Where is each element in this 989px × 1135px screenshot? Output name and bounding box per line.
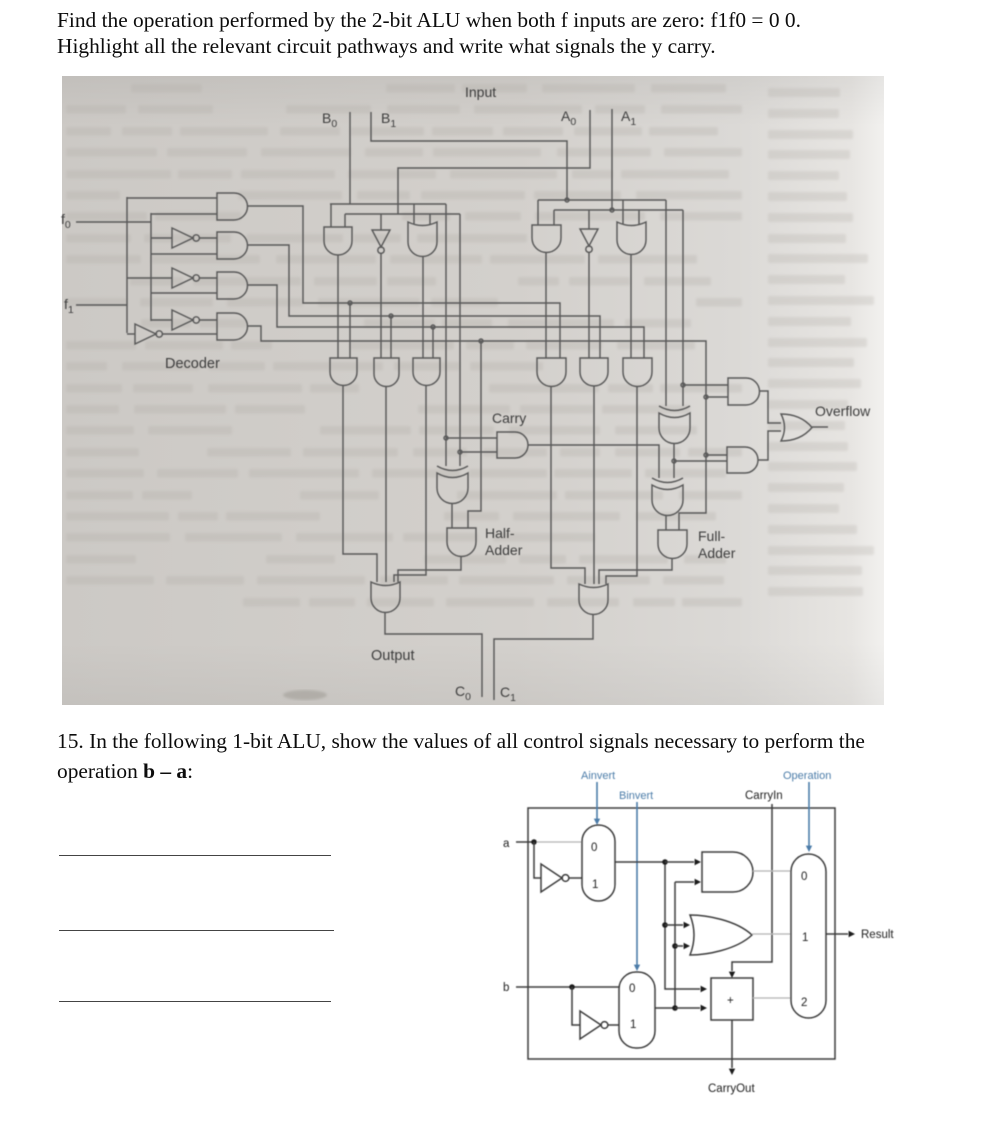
wire decoder rail B [150, 213, 152, 321]
wire ovf AND1 in a [683, 384, 728, 386]
inverter NOT-L bit0 [372, 230, 390, 247]
wire AND out [753, 870, 791, 872]
svg-text:Full-: Full- [698, 528, 726, 544]
wire a input [516, 841, 534, 843]
wire AND3R out to OR2 [606, 386, 637, 584]
wire mux A out [615, 861, 665, 863]
svg-text:2: 2 [801, 997, 807, 1009]
wire f0 [76, 221, 151, 223]
svg-text:1: 1 [630, 1019, 636, 1031]
wire AND2 input b [151, 253, 217, 255]
mux result 3-to-1 [791, 854, 826, 1018]
wire AND2R out to OR2 [593, 386, 595, 584]
wire b to inverter [572, 987, 580, 1025]
or-gate output OR2 bit1 [579, 584, 608, 615]
and-gate half-adder enable AND [447, 528, 476, 557]
junction line3 [479, 339, 483, 343]
xor-gate full-adder XOR1 [659, 406, 690, 411]
wire b-not to mux1 [608, 1024, 619, 1026]
wire AND1R out to OR2 [551, 386, 585, 584]
and-gate select AND2R [580, 358, 608, 386]
junction ovf d [672, 459, 676, 463]
wire Binvert arrow [636, 802, 638, 965]
and-gate ALU AND [702, 852, 753, 892]
svg-text:1: 1 [592, 879, 598, 891]
wire Operation arrow [808, 782, 810, 846]
wire NOT-R in [588, 210, 590, 229]
and-gate select AND1R [537, 358, 566, 387]
wire AND-R in a [537, 200, 539, 225]
wire a to OR [665, 924, 683, 926]
answer blank line 1 [59, 855, 331, 857]
wire b rail [674, 882, 676, 1008]
wire OR-L in b [429, 214, 431, 224]
wire ovf AND2 out [758, 431, 781, 460]
wire inv1 out [199, 237, 217, 239]
wire rail1R B1 [538, 199, 666, 201]
wire B0 to half-adder [445, 204, 447, 466]
wire adder out [753, 997, 791, 999]
svg-text:Input: Input [465, 84, 496, 100]
wire a-not to mux1 [569, 877, 582, 879]
wire AND-R out [545, 253, 547, 358]
wire inv4 out [162, 333, 217, 335]
wire AND-R in b [553, 210, 555, 225]
svg-text:Overflow: Overflow [815, 403, 871, 419]
wire inv3 input [151, 319, 172, 321]
and-gate select AND3R [623, 358, 652, 387]
wire A1 drop [611, 109, 613, 210]
wire ovf AND1 out [759, 391, 781, 423]
junction ovf b [704, 395, 708, 399]
wire decoder line2 [247, 285, 644, 358]
wire NOT-L in [380, 214, 382, 230]
wire AND-L in b [344, 214, 346, 227]
and-gate select AND2L [374, 358, 399, 387]
and-gate decoder AND3 [217, 272, 248, 299]
wire decoder line1 [247, 245, 600, 358]
and-gate decoder AND4 [217, 313, 248, 340]
wire XOR2 out [665, 515, 667, 530]
wire OR-L in a [413, 204, 415, 224]
wire A0 to half-adder [459, 214, 461, 466]
junction B1 rail [565, 198, 569, 202]
wire a rail [665, 862, 700, 989]
svg-text:0: 0 [801, 871, 807, 883]
wire A0 route [398, 110, 590, 214]
or-gate output OR1 bit0 [371, 582, 400, 613]
svg-text:Half-: Half- [485, 525, 515, 541]
svg-text:Output: Output [371, 648, 415, 664]
svg-text:operation b – a:: operation b – a: [57, 759, 193, 783]
or-gate OR-R bit1 [617, 222, 646, 254]
and-gate decoder AND2 [217, 232, 248, 259]
svg-text:Result: Result [861, 929, 894, 941]
and-gate select AND1L [330, 358, 357, 386]
wire line0 drop to select AND1L [349, 303, 351, 358]
junction line1 [389, 314, 393, 318]
wire decoder line0 [248, 206, 560, 358]
wire XOR1 out [673, 443, 675, 478]
wire b to adder [675, 1007, 700, 1009]
wire AND1 input a [127, 197, 217, 199]
or-gate overflow OR [781, 414, 812, 441]
and-gate select AND3L [413, 358, 440, 386]
junction ovf c [704, 453, 708, 457]
junction carry a [444, 436, 448, 440]
junction carry b [458, 450, 462, 454]
wire OR-R out [630, 254, 632, 358]
wire f1 [76, 304, 127, 306]
wire CarryOut [731, 1020, 733, 1068]
wire full-adder out to OR2 [599, 558, 672, 584]
1-bit ALU enclosure box [528, 808, 835, 1059]
junction a rail 1 [662, 859, 668, 865]
svg-text:Carry: Carry [492, 410, 526, 426]
junction b [569, 984, 575, 990]
wire add-enable drop to half-adder AND [468, 341, 481, 528]
wire mux B out [655, 1007, 675, 1009]
wire half-adder out to OR1 [398, 557, 461, 582]
wire C1 out [494, 614, 593, 700]
wire carry AND in a [446, 437, 497, 439]
mux A 2-to-1 [582, 825, 615, 901]
svg-text:CarryIn: CarryIn [745, 790, 783, 802]
wire OR out [752, 933, 791, 935]
wire decoder rail A [126, 197, 128, 333]
wire inv4 input [127, 333, 135, 335]
wire B0 drop [349, 112, 351, 204]
inverter a NOT [541, 864, 562, 892]
wire rail2L A0 [345, 213, 460, 215]
wire ovf AND1 in b [706, 396, 728, 398]
svg-text:Adder: Adder [698, 545, 736, 561]
wire inv3 out [199, 319, 217, 321]
wire AND1L out to OR1 [343, 386, 377, 582]
junction a [531, 839, 537, 845]
wire rail2R A1 [554, 209, 683, 211]
junction adder b [672, 1005, 678, 1011]
wire OR-R in a [622, 200, 624, 224]
and-gate overflow AND1 [728, 378, 760, 405]
wire inv2 out [199, 277, 217, 279]
svg-text:CarryOut: CarryOut [708, 1083, 755, 1095]
xor-gate full-adder XOR2 [652, 478, 683, 483]
wire Ainvert arrow [596, 782, 598, 819]
junction A1 rail [610, 208, 614, 212]
wire rail1L B0 [330, 203, 446, 205]
junction a rail 2 [662, 922, 668, 928]
wire line2 drop to select AND3L [432, 327, 434, 358]
wire Result [826, 933, 848, 935]
wire CarryIn route [732, 804, 772, 971]
wire NOT-R out [588, 253, 590, 358]
wire B1 to full-adder [665, 200, 667, 406]
wire OR-L out [422, 256, 424, 358]
wire OR-R in b [638, 210, 640, 224]
inverter b NOT [580, 1011, 601, 1039]
wire NOT-L out [380, 254, 382, 358]
junction line0 [348, 301, 352, 305]
inverter decoder inv2 [172, 268, 193, 288]
wire XOR out [451, 503, 453, 528]
wire A1 to full-adder [682, 210, 684, 406]
wire AND-L out [337, 255, 339, 358]
and-gate AND-L bit0 [324, 227, 352, 255]
and-gate AND-R bit1 [532, 225, 561, 253]
svg-text:Adder: Adder [485, 542, 523, 558]
wire overflow out [812, 426, 828, 428]
wire inv2 input [127, 277, 172, 279]
xor-gate half-adder XOR [437, 466, 468, 471]
junction ovf a [681, 383, 685, 387]
wire a to AND [665, 861, 694, 863]
and-gate decoder AND1 [217, 193, 248, 220]
adder box [711, 978, 753, 1020]
wire a to mux0 [534, 841, 582, 843]
wire b input [516, 986, 619, 988]
wire a to inverter [534, 842, 541, 878]
inverter decoder inv3 [172, 310, 193, 330]
or-gate OR-L bit0 [408, 222, 437, 257]
answer blank line 3 [59, 1001, 331, 1003]
wire AND3 input b [151, 292, 217, 294]
wire AND1 input b [151, 213, 217, 215]
svg-text:15. In the following 1-bit ALU: 15. In the following 1-bit ALU, show the… [57, 729, 865, 753]
wire carry0 to full-adder [528, 445, 659, 478]
junction b rail [672, 943, 678, 949]
and-gate full-adder enable AND [658, 530, 687, 559]
wire inv1 input [151, 237, 172, 239]
wire AND3L out to OR1 [394, 386, 426, 582]
svg-text:+: + [727, 995, 734, 1007]
wire decoder line3 add-enable [247, 326, 706, 530]
wire C0 out [385, 613, 482, 697]
inverter decoder inv1 [172, 228, 193, 248]
inverter NOT-R bit1 [580, 229, 598, 246]
or-gate ALU OR [690, 915, 752, 955]
answer blank line 2 [59, 930, 334, 932]
svg-text:1: 1 [802, 932, 808, 944]
svg-text:Find the operation performed b: Find the operation performed by the 2-bi… [57, 8, 801, 32]
svg-text:Operation: Operation [783, 770, 831, 782]
junction line2 [431, 325, 435, 329]
svg-text:b: b [503, 982, 509, 994]
wire b to OR [675, 945, 683, 947]
wire AND2L out to OR1 [385, 386, 387, 582]
svg-text:Highlight all the relevant cir: Highlight all the relevant circuit pathw… [57, 34, 716, 58]
mux B 2-to-1 [619, 972, 655, 1048]
svg-text:Decoder: Decoder [165, 356, 220, 372]
and-gate carry AND [497, 432, 528, 458]
svg-text:Ainvert: Ainvert [581, 770, 615, 782]
wire line1 drop to select AND2L [390, 316, 392, 358]
svg-text:0: 0 [591, 842, 597, 854]
wire AND-L in a [330, 204, 332, 227]
wire ovf AND2 in b [674, 460, 727, 462]
svg-text:Binvert: Binvert [619, 790, 653, 802]
wire B1 route [371, 112, 567, 200]
and-gate overflow AND2 [727, 447, 758, 473]
wire ovf AND2 in a [706, 454, 727, 456]
wire carry AND in b [460, 451, 497, 453]
svg-text:a: a [503, 838, 510, 850]
inverter decoder inv4 [135, 324, 156, 344]
wire b to AND [675, 881, 694, 883]
svg-text:0: 0 [629, 983, 635, 995]
